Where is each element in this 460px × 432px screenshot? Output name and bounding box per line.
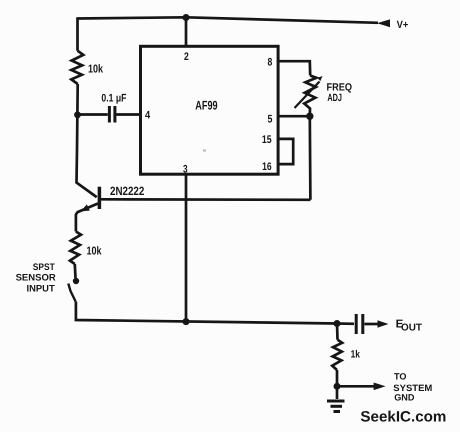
svg-text:2: 2 xyxy=(184,51,189,63)
svg-text:0.1 μF: 0.1 μF xyxy=(101,93,126,105)
svg-text:5: 5 xyxy=(268,113,273,125)
svg-text:SENSOR: SENSOR xyxy=(16,272,56,283)
svg-text:SeekIC.com: SeekIC.com xyxy=(360,409,446,426)
svg-text:GND: GND xyxy=(394,393,415,403)
svg-text:V+: V+ xyxy=(397,19,409,31)
svg-text:1k: 1k xyxy=(351,349,360,361)
svg-text:SPST: SPST xyxy=(33,262,55,273)
svg-text:4: 4 xyxy=(145,109,151,121)
svg-text:3: 3 xyxy=(183,163,188,175)
svg-text:INPUT: INPUT xyxy=(27,283,55,294)
svg-text:AF99: AF99 xyxy=(195,99,217,113)
svg-text:10k: 10k xyxy=(87,246,102,258)
svg-text:8: 8 xyxy=(268,57,273,69)
svg-text:TO: TO xyxy=(394,372,407,382)
svg-text:16: 16 xyxy=(262,161,272,173)
svg-text:10k: 10k xyxy=(88,63,103,75)
svg-text:2N2222: 2N2222 xyxy=(110,184,145,198)
svg-text:SYSTEM: SYSTEM xyxy=(393,383,432,393)
svg-text:15: 15 xyxy=(262,134,272,146)
svg-text:OUT: OUT xyxy=(401,323,422,334)
svg-text:ADJ: ADJ xyxy=(327,92,342,104)
